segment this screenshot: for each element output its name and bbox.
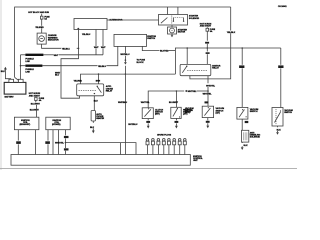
relay auto choke K1 (77, 84, 114, 96)
svg-text:SPARK PLUGS: SPARK PLUGS (157, 134, 172, 137)
ground vacuum switch (206, 118, 210, 129)
svg-text:BLU: BLU (94, 101, 99, 103)
svg-text:BLK/YEL: BLK/YEL (160, 51, 169, 53)
solenoid anti dieseling L2 (242, 130, 261, 142)
switch neutral S3 (171, 107, 193, 118)
svg-text:(M/T): (M/T) (155, 114, 160, 116)
wire charge indicator to alternator (42, 44, 80, 50)
switch clutch S2 (142, 108, 163, 119)
svg-text:WHT/BLU: WHT/BLU (118, 102, 128, 104)
ground starter motor (171, 34, 173, 35)
fusible link FL2 (21, 66, 43, 74)
wire battery feed top (15, 7, 231, 77)
svg-text:WHT: WHT (54, 55, 59, 57)
svg-text:BRN: BRN (96, 80, 101, 82)
ground clutch switch (146, 119, 150, 129)
ground vacuum switch right (276, 126, 281, 135)
ground neutral switch (175, 118, 179, 128)
wire ignition run output (142, 46, 175, 52)
wire choke relay feed (81, 74, 176, 84)
ground battery negative (1, 67, 11, 80)
wire riser to fusible links (20, 55, 22, 80)
svg-text:LINK: LINK (25, 61, 30, 63)
svg-text:SOLENOID: SOLENOID (250, 136, 261, 138)
svg-text:WHT/BLU: WHT/BLU (128, 124, 138, 126)
node junction fusible link 2 (20, 65, 22, 67)
wire ignition accessory WHT/BLU (118, 46, 146, 154)
svg-text:BLK: BLK (90, 127, 95, 129)
wire BLU/WHT to coil (30, 104, 41, 118)
wire battery positive diagonal (15, 77, 21, 82)
wire alternator output WHT right (101, 30, 106, 55)
svg-text:RELAY: RELAY (212, 67, 219, 70)
wire YEL/BLU to ignition switch (42, 46, 117, 67)
wire main feed to speed switch (239, 47, 244, 107)
svg-text:AND START: AND START (200, 25, 212, 28)
switch speed S5 (237, 107, 259, 119)
svg-text:BLU/WHT: BLU/WHT (169, 102, 179, 104)
svg-text:(M/T): (M/T) (185, 112, 190, 114)
coil ignition intake T2 (46, 117, 70, 130)
fusible link FL1 (21, 55, 44, 63)
alternator U1 (74, 18, 123, 29)
resistor choke heater (91, 111, 105, 122)
unit ignition control (11, 155, 204, 166)
spark plugs P1-P8 (146, 139, 186, 155)
wire coil intake outputs (45, 130, 58, 155)
wire to anti dieseling solenoid (242, 119, 248, 130)
motor starter M1 (168, 25, 188, 34)
fuse F2 (206, 27, 216, 40)
wire BRN fuse to relay (205, 42, 210, 65)
svg-text:YEL/BLU: YEL/BLU (82, 34, 91, 36)
svg-text:SWITCH: SWITCH (284, 112, 292, 114)
svg-text:MOTOR: MOTOR (178, 31, 186, 33)
switch ignition S1 (114, 34, 156, 46)
svg-text:WHT/YEL: WHT/YEL (203, 93, 213, 95)
wire alternator field to choke relay (55, 30, 91, 99)
svg-text:(INTAKE): (INTAKE) (52, 123, 61, 126)
svg-text:SWITCH: SWITCH (250, 111, 258, 113)
fuse F1 (40, 14, 50, 26)
svg-text:WHT/YEL: WHT/YEL (141, 102, 151, 104)
wire ignitor relay output WHT/YEL (203, 76, 216, 107)
svg-text:SWITCH: SWITCH (147, 38, 155, 40)
svg-text:LINK: LINK (25, 71, 30, 73)
solenoid starter L1 (159, 15, 200, 26)
ground choke heater (90, 121, 95, 133)
fuse F3 (35, 97, 45, 103)
wire battery feed right riser (190, 7, 236, 79)
page edge artifact left (0, 0, 2, 170)
wire coil intake WHT/YEL (55, 130, 69, 155)
svg-text:YEL/BLU: YEL/BLU (62, 48, 71, 50)
svg-text:HEATER: HEATER (96, 117, 104, 120)
svg-text:WHT/YEL: WHT/YEL (55, 143, 65, 145)
svg-text:(EXHAUST): (EXHAUST) (20, 123, 31, 126)
wire solenoid feeds (167, 7, 178, 15)
svg-text:YEL/RED: YEL/RED (74, 80, 83, 82)
wire choke relay to heater (94, 96, 99, 111)
wire main ignition feed (175, 48, 280, 74)
svg-text:SOLENOID: SOLENOID (189, 18, 200, 20)
wire alternator output WHT left (94, 30, 99, 55)
svg-text:BATTERY: BATTERY (5, 96, 15, 99)
svg-text:BLK: BLK (1, 71, 6, 73)
svg-text:BLOCK: BLOCK (137, 62, 145, 64)
wire WHT to alternator (43, 55, 103, 57)
svg-text:BLU/WHT: BLU/WHT (31, 104, 41, 106)
svg-text:YEL/RED: YEL/RED (35, 27, 44, 29)
indicator charge warning (37, 33, 59, 44)
svg-text:CH 24061: CH 24061 (278, 5, 288, 8)
svg-text:RELAY: RELAY (106, 90, 113, 93)
wire main feed to vacuum switch right (278, 48, 283, 108)
wire clutch neutral feed (141, 90, 208, 108)
svg-text:YEL/BLK: YEL/BLK (227, 32, 236, 34)
svg-text:(A/T): (A/T) (216, 112, 221, 115)
svg-text:BLK: BLK (244, 145, 249, 147)
wire collector to control unit (66, 143, 137, 155)
svg-text:INDICATOR: INDICATOR (48, 39, 59, 42)
wire coil exhaust outputs (16, 130, 35, 155)
switch vacuum S4 (185, 106, 224, 117)
wire alternator to solenoid (107, 19, 159, 21)
svg-text:BLU/WHT: BLU/WHT (30, 110, 40, 112)
svg-text:HOT IN ACC AND RUN: HOT IN ACC AND RUN (28, 11, 49, 14)
svg-text:BLU: BLU (55, 74, 60, 76)
ground anti dieseling (241, 142, 248, 150)
coil ignition exhaust T1 (14, 117, 39, 130)
page rule bottom (0, 167, 297, 169)
svg-text:YEL/BLU: YEL/BLU (98, 66, 107, 68)
switch vacuum right S6 (272, 108, 293, 127)
relay ignitor K2 (180, 64, 221, 75)
svg-text:WHT/YEL: WHT/YEL (206, 85, 216, 87)
battery B1 (4, 79, 26, 98)
svg-text:WHT/YEL: WHT/YEL (188, 91, 198, 93)
